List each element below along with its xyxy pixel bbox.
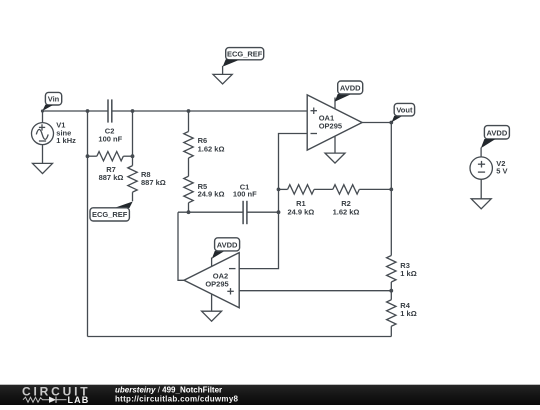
wire C1 rail [178, 211, 279, 213]
node ECG_REF flag upper [223, 48, 264, 75]
footer bar [0, 385, 540, 405]
svg-text:AVDD: AVDD [217, 240, 238, 249]
node junction R1 left [277, 188, 281, 192]
ground ECG_REF upper [213, 74, 232, 84]
power AVDD flag V2 [481, 126, 510, 157]
svg-text:24.9 kΩ: 24.9 kΩ [287, 208, 314, 217]
source V1 sine 1 kHz [32, 111, 77, 145]
svg-text:AVDD: AVDD [340, 84, 361, 93]
node junction R5 bottom [187, 210, 191, 214]
svg-text:ECG_REF: ECG_REF [92, 210, 128, 219]
ground below V2 [471, 179, 491, 209]
svg-text:http://circuitlab.com/cduwmy8: http://circuitlab.com/cduwmy8 [115, 395, 239, 404]
wire left vertical rail [87, 111, 89, 337]
node junction OA1 output [389, 121, 393, 125]
svg-text:ECG_REF: ECG_REF [227, 50, 263, 59]
svg-text:100 nF: 100 nF [98, 135, 122, 144]
resistor R8 887 kOhm [128, 156, 166, 201]
svg-text:5 V: 5 V [496, 167, 507, 176]
op-amp OA1 OP295 [307, 95, 362, 150]
svg-text:887 kΩ: 887 kΩ [141, 178, 166, 187]
footer CircuitLab logo [22, 385, 89, 405]
capacitor C1 100 nF [233, 182, 257, 224]
svg-text:R2: R2 [341, 199, 351, 208]
wire top rail Vin to OA1 + input [43, 110, 308, 112]
power AVDD flag OA1 [335, 81, 363, 109]
node junction top rail C2 right [131, 109, 135, 113]
ground below OA1 [325, 136, 345, 163]
wire OA2 - input to feedback vertical [239, 134, 307, 269]
node junction C1 right [277, 210, 281, 214]
node ECG_REF flag lower [90, 202, 133, 222]
ground below V1 [33, 145, 53, 174]
resistor R7 887 kOhm [88, 152, 133, 182]
power AVDD flag OA2 [212, 238, 240, 267]
svg-text:1 kHz: 1 kHz [56, 136, 76, 145]
svg-text:1 kΩ: 1 kΩ [400, 269, 416, 278]
footer credit text [115, 386, 239, 404]
svg-text:OP295: OP295 [205, 280, 228, 289]
node junction R7 left [86, 154, 90, 158]
node Vin flag [41, 92, 62, 112]
source V2 5 V [470, 157, 508, 179]
svg-text:100 nF: 100 nF [233, 190, 257, 199]
svg-text:Vout: Vout [396, 105, 413, 114]
resistor R2 1.62 kOhm [333, 185, 392, 217]
resistor R4 1 kOhm [387, 300, 417, 337]
wire between R1 and R2 [314, 188, 333, 190]
resistor R5 24.9 kOhm [184, 158, 225, 212]
node Vout flag [392, 103, 415, 122]
svg-text:1.62 kΩ: 1.62 kΩ [333, 208, 360, 217]
wire OA2 output up to C1 rail [178, 212, 184, 280]
wire OA2 + input to R3/R4 node [239, 290, 391, 292]
node junction top rail R6 [187, 109, 191, 113]
svg-text:24.9 kΩ: 24.9 kΩ [198, 189, 225, 198]
capacitor C2 100 nF [98, 99, 122, 143]
node junction R7 right / R8 top [131, 154, 135, 158]
svg-text:1.62 kΩ: 1.62 kΩ [198, 145, 225, 154]
ground below OA2 [202, 294, 222, 321]
wire right vertical rail [390, 123, 392, 256]
svg-text:Vin: Vin [48, 94, 60, 103]
svg-text:1 kΩ: 1 kΩ [400, 309, 416, 318]
svg-text:ubersteiny / 499_NotchFilter: ubersteiny / 499_NotchFilter [115, 386, 222, 395]
svg-text:R1: R1 [296, 199, 306, 208]
node junction top rail left [86, 109, 90, 113]
svg-text:OP295: OP295 [319, 122, 342, 131]
svg-text:AVDD: AVDD [487, 128, 508, 137]
svg-text:887 kΩ: 887 kΩ [99, 173, 124, 182]
node junction R2 right [389, 188, 393, 192]
wire OA1 output [362, 122, 391, 124]
resistor R1 24.9 kOhm [279, 185, 315, 217]
resistor R3 1 kOhm [387, 256, 417, 300]
op-amp OA2 OP295 [184, 253, 239, 308]
wire bottom return rail [88, 336, 392, 338]
wire C2 right branch down [132, 111, 134, 156]
node junction R3/R4 [389, 289, 393, 293]
svg-text:LAB: LAB [68, 395, 90, 405]
resistor R6 1.62 kOhm [184, 111, 225, 158]
